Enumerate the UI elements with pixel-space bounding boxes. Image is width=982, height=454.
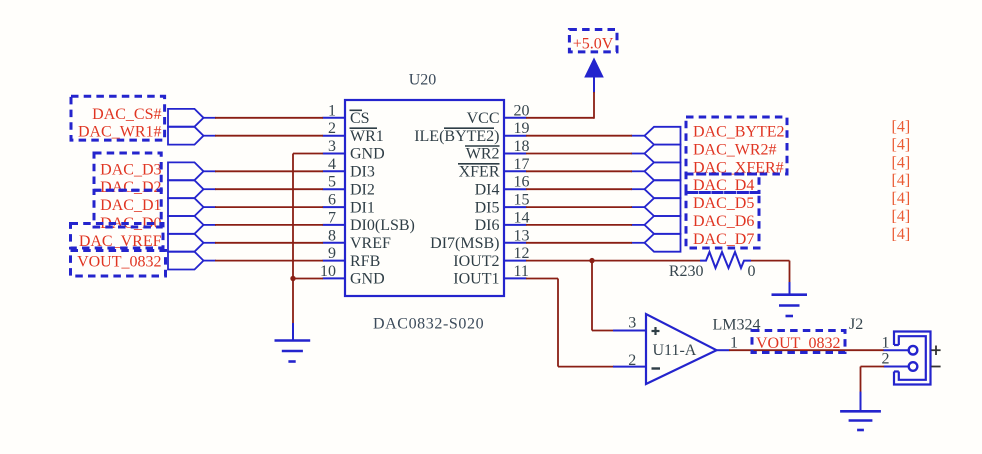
svg-text:11: 11: [514, 263, 529, 280]
IC U20 part number DAC0832-S020: [373, 316, 484, 333]
wire J2 pin 2: [861, 367, 910, 412]
resistor R230: [700, 252, 751, 268]
wire pin 18 to DAC_WR2#: [526, 153, 632, 155]
port VOUT_0832: [77, 252, 216, 271]
svg-text:WR2: WR2: [466, 146, 500, 163]
selection box VOUT_0832 at J2: [752, 331, 845, 353]
svg-text:GND: GND: [350, 146, 385, 163]
svg-text:18: 18: [514, 138, 530, 155]
ground under J2: [840, 411, 881, 430]
sheet reference [4] row pin 13: [892, 226, 911, 243]
pin 17 (XFER): [458, 156, 530, 181]
svg-text:R230: R230: [669, 263, 704, 280]
svg-text:14: 14: [514, 209, 530, 226]
wire IOUT2 to op-amp pin 3: [592, 261, 646, 331]
pin 15 (DI5): [475, 192, 530, 217]
wire pin 15 to DAC_D5: [526, 206, 632, 208]
pin 9 (RFB): [323, 245, 381, 270]
svg-text:16: 16: [514, 174, 530, 191]
ground under U20: [275, 341, 311, 362]
selection box DAC_D5/DAC_D6/DAC_D7: [686, 193, 759, 249]
svg-text:[4]: [4]: [892, 154, 911, 171]
wire pin 17 to DAC_XFER#: [526, 170, 632, 172]
wire DAC_D1 to pin 6: [215, 206, 323, 208]
wire pin 11 IOUT1 to op-amp pin 2: [526, 279, 646, 367]
J2 pin 2 circle: [909, 362, 918, 371]
svg-text:+5.0V: +5.0V: [573, 36, 614, 53]
wire DAC_D3 to pin 4: [215, 170, 323, 172]
svg-text:J2: J2: [849, 316, 863, 333]
junction IOUT2/op-amp branch: [589, 258, 594, 263]
svg-text:ILE(BYTE2): ILE(BYTE2): [414, 128, 499, 145]
svg-text:IOUT1: IOUT1: [453, 271, 499, 288]
pin 18 (WR2): [465, 138, 530, 163]
svg-text:IOUT2: IOUT2: [453, 253, 499, 270]
svg-text:3: 3: [328, 138, 336, 155]
svg-text:DAC_D7: DAC_D7: [693, 231, 754, 248]
svg-text:DAC_WR2#: DAC_WR2#: [693, 142, 777, 159]
wire pin 12 IOUT2 to R230: [526, 260, 700, 262]
selection box DAC_CS#/DAC_WR1#: [71, 96, 165, 140]
svg-text:7: 7: [328, 209, 336, 226]
J2 minus mark: [931, 366, 940, 368]
port DAC_WR2#: [631, 142, 777, 163]
op-amp part LM324: [713, 316, 761, 333]
svg-text:8: 8: [328, 227, 336, 244]
svg-text:5: 5: [328, 174, 336, 191]
wire pin 10 GND: [293, 278, 323, 280]
svg-text:DI3: DI3: [350, 164, 375, 181]
svg-text:GND: GND: [350, 271, 385, 288]
svg-text:10: 10: [320, 263, 336, 280]
port DAC_D7: [631, 231, 754, 252]
svg-text:13: 13: [514, 227, 530, 244]
pin 3 (GND): [323, 138, 385, 163]
op-amp pin 3 number: [628, 314, 636, 331]
selection box DAC_BYTE2/DAC_WR2#/DAC_XFER#: [686, 117, 787, 174]
wire pin 3 GND: [293, 153, 323, 155]
pin 12 (IOUT2): [453, 245, 529, 270]
wire DAC_D0 to pin 7: [215, 224, 323, 226]
svg-text:[4]: [4]: [892, 172, 911, 189]
svg-text:15: 15: [514, 192, 530, 209]
port DAC_D5: [631, 195, 754, 216]
svg-text:VREF: VREF: [350, 235, 391, 252]
pin 2 (WR1): [323, 120, 384, 145]
svg-text:DI2: DI2: [350, 181, 375, 198]
svg-text:DI6: DI6: [475, 217, 500, 234]
svg-text:VOUT_0832: VOUT_0832: [756, 335, 840, 352]
op-amp pin 2 number: [628, 352, 636, 369]
port DAC_D4: [631, 177, 754, 198]
svg-text:XFER: XFER: [459, 164, 500, 181]
svg-text:DAC_D1: DAC_D1: [100, 197, 161, 214]
selection box DAC_D4: [686, 174, 759, 193]
wire op-amp output: [717, 349, 910, 351]
svg-text:DI4: DI4: [475, 181, 500, 198]
wire pin 14 to DAC_D6: [526, 224, 632, 226]
port DAC_D0: [100, 215, 216, 234]
svg-text:DAC_D2: DAC_D2: [100, 179, 161, 196]
wire pin 16 to DAC_D4: [526, 188, 632, 190]
svg-text:2: 2: [882, 351, 890, 368]
wire DAC_CS# to pin 1: [215, 117, 323, 119]
svg-text:2: 2: [628, 352, 636, 369]
pin 5 (DI2): [323, 174, 375, 199]
port DAC_D2: [100, 179, 216, 198]
net label VOUT_0832 at J2: [756, 335, 840, 352]
op-amp - input mark: [652, 367, 661, 369]
value 0: [748, 263, 756, 280]
svg-text:DAC0832-S020: DAC0832-S020: [373, 316, 484, 333]
svg-text:VOUT_0832: VOUT_0832: [77, 254, 161, 271]
svg-text:CS: CS: [350, 110, 370, 127]
selection box VOUT_0832: [71, 251, 166, 277]
IC U20 body: [345, 100, 504, 296]
label R230: [669, 263, 704, 280]
sheet reference [4] row pin 15: [892, 190, 911, 207]
svg-text:0: 0: [748, 263, 756, 280]
pin 6 (DI1): [323, 192, 375, 217]
sheet reference [4] row pin 18: [892, 137, 911, 154]
wire DAC_WR1# to pin 2: [215, 135, 323, 137]
wire DAC_VREF to pin 8: [215, 242, 323, 244]
op-amp U11-A: [646, 314, 717, 384]
op-amp pin 1 number: [730, 335, 738, 352]
port DAC_CS#: [92, 106, 216, 127]
svg-text:VCC: VCC: [467, 110, 500, 127]
svg-text:9: 9: [328, 245, 336, 262]
sheet reference [4] row pin 19: [892, 119, 911, 136]
wire GND vertical: [292, 154, 294, 341]
svg-text:12: 12: [514, 245, 530, 262]
svg-text:DAC_BYTE2: DAC_BYTE2: [693, 124, 785, 141]
pin 14 (DI6): [475, 209, 530, 234]
sheet reference [4] row pin 14: [892, 208, 911, 225]
port DAC_VREF: [79, 233, 216, 252]
svg-text:DAC_CS#: DAC_CS#: [92, 106, 161, 123]
port DAC_BYTE2: [631, 124, 785, 145]
pin 4 (DI3): [323, 156, 375, 181]
svg-text:DI1: DI1: [350, 199, 375, 216]
wire DAC_D2 to pin 5: [215, 188, 323, 190]
J2 pin 2 number: [882, 351, 890, 368]
svg-text:20: 20: [514, 102, 530, 119]
J2 pin 1 number: [882, 335, 890, 352]
svg-text:DI5: DI5: [475, 199, 500, 216]
svg-text:[4]: [4]: [892, 226, 911, 243]
svg-text:19: 19: [514, 120, 530, 137]
pin 20 (VCC): [467, 102, 530, 127]
pin 8 (VREF): [323, 227, 392, 252]
svg-text:DAC_WR1#: DAC_WR1#: [78, 124, 162, 141]
connector J2 shroud: [894, 332, 931, 385]
svg-text:U20: U20: [409, 72, 437, 89]
sheet reference [4] row pin 16: [892, 172, 911, 189]
svg-text:U11-A: U11-A: [653, 342, 697, 359]
svg-text:4: 4: [328, 156, 336, 173]
port DAC_XFER#: [631, 159, 784, 180]
svg-text:[4]: [4]: [892, 119, 911, 136]
pin 10 (GND): [320, 263, 385, 288]
ground under R230: [772, 295, 808, 316]
svg-text:DI7(MSB): DI7(MSB): [430, 235, 499, 252]
wire VCC pin 20 to +5.0V: [526, 92, 594, 119]
svg-text:[4]: [4]: [892, 137, 911, 154]
sheet reference [4] row pin 17: [892, 154, 911, 171]
wire pin 19 to DAC_BYTE2: [526, 135, 632, 137]
power symbol +5.0V: [569, 30, 617, 93]
svg-text:DI0(LSB): DI0(LSB): [350, 217, 415, 234]
svg-text:DAC_D6: DAC_D6: [693, 213, 754, 230]
op-amp refdes U11-A: [653, 342, 697, 359]
connector J2 refdes: [849, 316, 863, 333]
pin 7 (DI0(LSB)): [323, 209, 415, 234]
wire VOUT_0832 to pin 9: [215, 260, 323, 262]
selection box DAC_D3/DAC_D2: [94, 153, 161, 190]
port DAC_D1: [100, 197, 216, 216]
svg-text:1: 1: [730, 335, 738, 352]
pin 11 (IOUT1): [453, 263, 529, 288]
svg-text:1: 1: [328, 102, 336, 119]
port DAC_D3: [100, 161, 216, 180]
pin 1 (CS): [323, 102, 370, 127]
port DAC_WR1#: [78, 124, 216, 145]
svg-text:[4]: [4]: [892, 208, 911, 225]
J2 pin 1 circle: [909, 346, 918, 355]
svg-text:6: 6: [328, 192, 336, 209]
pin 13 (DI7(MSB)): [430, 227, 529, 252]
svg-text:1: 1: [882, 335, 890, 352]
selection box DAC_VREF: [71, 224, 164, 249]
svg-text:3: 3: [628, 314, 636, 331]
svg-text:[4]: [4]: [892, 190, 911, 207]
selection box DAC_D1/DAC_D0: [94, 190, 161, 227]
IC U20 refdes U20: [409, 72, 437, 89]
J2 plus mark: [931, 346, 940, 356]
pin 19 (ILE(BYTE2)): [414, 120, 529, 145]
svg-text:17: 17: [514, 156, 530, 173]
svg-text:DAC_D3: DAC_D3: [100, 161, 161, 178]
svg-text:2: 2: [328, 120, 336, 137]
wire pin 13 to DAC_D7: [526, 242, 632, 244]
junction pin10/GND: [290, 276, 295, 281]
wire R230 to ground: [751, 261, 790, 295]
svg-text:RFB: RFB: [350, 253, 380, 270]
op-amp + input mark: [652, 327, 660, 335]
svg-text:DAC_D5: DAC_D5: [693, 195, 754, 212]
port DAC_D6: [631, 213, 754, 234]
svg-text:WR1: WR1: [350, 128, 384, 145]
pin 16 (DI4): [475, 174, 530, 199]
